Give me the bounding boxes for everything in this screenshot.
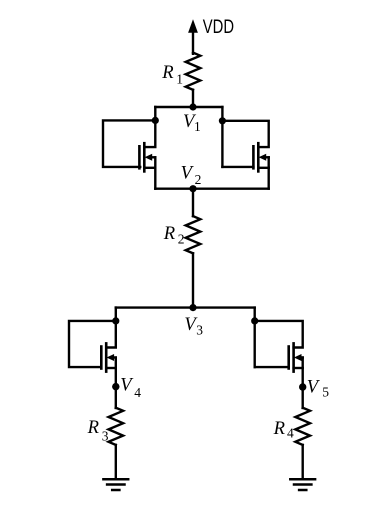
- label V2: [181, 162, 202, 187]
- node M3 gate-drain junction: [112, 317, 119, 324]
- svg-text:VDD: VDD: [203, 15, 234, 38]
- svg-text:2: 2: [178, 231, 185, 246]
- wire V2 rail: [155, 187, 268, 189]
- wire M3 source to R3: [115, 358, 117, 409]
- label R4: [273, 418, 294, 441]
- wire M4 source to R4: [302, 358, 304, 409]
- svg-text:R: R: [161, 62, 174, 83]
- label V1: [183, 111, 201, 134]
- transistor M4: [289, 343, 303, 371]
- wire M1 source to V2 rail: [154, 157, 156, 188]
- label R3: [87, 417, 109, 443]
- label V3: [184, 314, 203, 337]
- resistor R3: [109, 408, 124, 445]
- wire R2 to V3 rail: [192, 253, 194, 307]
- wire M2 drain loop: [222, 121, 268, 147]
- wire V2 to R2: [192, 189, 194, 217]
- wire M4 gate lead: [255, 366, 289, 368]
- label R1: [161, 62, 183, 86]
- ground (right): [290, 479, 315, 490]
- wire M4 branch from V3 rail: [253, 308, 255, 368]
- svg-text:1: 1: [194, 119, 201, 134]
- wire M3 gate loop: [69, 321, 116, 367]
- label V5: [307, 376, 330, 399]
- node V5: [299, 383, 306, 390]
- label R2: [163, 223, 185, 246]
- node V3 junction: [189, 304, 196, 311]
- svg-text:5: 5: [322, 384, 329, 399]
- transistor M1: [139, 143, 155, 171]
- svg-text:4: 4: [287, 426, 294, 441]
- svg-text:3: 3: [196, 322, 203, 337]
- wire R3 to ground: [115, 445, 117, 478]
- label V4: [120, 375, 141, 400]
- wire M2 source to V2 rail: [268, 157, 270, 188]
- wire M2 gate lead: [222, 166, 253, 168]
- svg-text:4: 4: [134, 385, 141, 400]
- wire V1 rail: [155, 106, 222, 108]
- node V2 junction: [189, 185, 196, 192]
- node M4 gate-drain junction: [251, 317, 258, 324]
- svg-text:2: 2: [195, 172, 202, 187]
- transistor M3: [101, 343, 116, 371]
- power VDD arrow: [188, 19, 198, 54]
- wire M3 drain from V3 rail: [106, 308, 116, 348]
- svg-text:R: R: [273, 418, 286, 439]
- resistor R1: [186, 53, 201, 90]
- transistor M2: [253, 143, 268, 171]
- svg-text:V: V: [181, 162, 195, 183]
- wire M4 drain loop: [255, 321, 303, 348]
- wire M1 gate loop: [103, 120, 155, 166]
- resistor R4: [295, 408, 310, 445]
- resistor R2: [186, 216, 201, 253]
- node V1 junction: [189, 103, 196, 110]
- node M1 gate-drain junction: [152, 117, 159, 124]
- svg-text:3: 3: [102, 428, 109, 443]
- svg-text:1: 1: [176, 71, 183, 86]
- svg-text:V: V: [307, 376, 321, 397]
- wire V3 rail: [116, 306, 255, 308]
- node M2 gate-drain junction: [219, 117, 226, 124]
- wire M2 branch from V1 rail: [221, 107, 223, 167]
- node V4: [112, 383, 119, 390]
- ground (left): [103, 479, 128, 490]
- svg-text:V: V: [120, 375, 134, 396]
- wire R1 to V1 rail: [192, 90, 194, 107]
- wire M1 drain from V1 rail: [144, 107, 155, 147]
- wire R4 to ground: [302, 445, 304, 478]
- svg-text:R: R: [87, 417, 100, 438]
- svg-text:R: R: [163, 223, 176, 244]
